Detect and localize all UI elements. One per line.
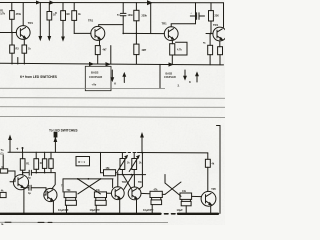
svg-text:re.: re.	[1, 223, 4, 225]
resistor R7	[95, 46, 100, 55]
wire diag	[123, 175, 132, 189]
wire X cross	[78, 179, 101, 194]
wire collector TR1b	[99, 25, 124, 27]
capacitor C7 electrolytic	[151, 200, 162, 205]
wire	[22, 152, 24, 158]
wire	[190, 15, 196, 17]
wire emitter TR5	[210, 206, 212, 213]
wire	[209, 55, 211, 65]
wire	[48, 3, 50, 12]
svg-text:TR3: TR3	[122, 181, 127, 184]
capacitor C6 electrolytic	[95, 200, 106, 205]
svg-text:K: K	[189, 80, 191, 84]
node	[77, 178, 79, 180]
wire collector TR1e	[22, 170, 24, 175]
wire bus	[117, 174, 145, 176]
down arrow	[111, 70, 113, 79]
wire emitter TR1d	[219, 41, 221, 47]
svg-text:220k: 220k	[142, 15, 148, 18]
wire	[121, 170, 123, 175]
transistor TR2	[44, 188, 57, 201]
down arrow	[123, 75, 125, 83]
wire	[122, 3, 124, 13]
svg-text:To LED SWITCHES: To LED SWITCHES	[49, 129, 78, 133]
wire right rail top	[223, 3, 225, 28]
svg-text:22K: 22K	[215, 15, 220, 18]
wire	[54, 138, 56, 153]
ground rail thick	[0, 213, 161, 215]
transistor TR1d	[213, 27, 227, 41]
wire	[100, 152, 102, 172]
ruled line 1	[0, 87, 165, 89]
wire	[210, 3, 212, 11]
wire emitter TR1	[23, 39, 25, 45]
transistor TR4	[128, 187, 141, 200]
svg-text:1/7k: 1/7k	[0, 13, 5, 16]
wire	[210, 21, 212, 34]
arrow on top rail	[148, 1, 152, 5]
wire continues	[138, 152, 208, 154]
resistor R1	[10, 11, 15, 20]
capacitor C8 electrolytic	[181, 201, 191, 205]
wire	[11, 33, 13, 46]
capacitor loop	[175, 42, 187, 55]
wire	[23, 172, 29, 174]
node	[22, 147, 24, 149]
wire X cross right	[165, 182, 181, 194]
resistor R3	[10, 45, 15, 53]
svg-text:K+ from LED SWITCHES: K+ from LED SWITCHES	[20, 75, 58, 79]
capacitor C1	[120, 12, 126, 14]
ruled line 2	[0, 97, 225, 100]
resistor RB6 variable	[120, 159, 125, 170]
svg-text:TR5: TR5	[211, 188, 216, 191]
svg-text:+Ve: +Ve	[92, 83, 97, 87]
resistor R4	[22, 45, 27, 53]
resistor R13	[218, 47, 223, 55]
wire	[207, 153, 209, 159]
transistor TR1e	[13, 175, 28, 190]
up arrow mid	[141, 137, 143, 153]
capacitor C2	[196, 13, 198, 20]
node	[100, 178, 102, 180]
capacitor C4	[28, 185, 30, 190]
wire	[164, 175, 166, 184]
down arrow	[196, 75, 198, 83]
wire	[171, 55, 173, 64]
black square terminal	[54, 132, 58, 138]
wire base TR1b	[74, 32, 91, 34]
svg-text:COUPLER: COUPLER	[89, 75, 102, 79]
wire base TR1d	[206, 33, 213, 35]
svg-text:TR1: TR1	[213, 23, 219, 27]
wire	[112, 179, 114, 188]
top supply rail	[0, 2, 224, 4]
wire	[101, 172, 104, 174]
svg-text:70k: 70k	[67, 189, 72, 192]
svg-text:TR1: TR1	[88, 19, 94, 23]
box BASS COUPLER	[85, 66, 111, 90]
resistor R11 22k	[209, 11, 214, 21]
wire	[135, 3, 137, 11]
wire	[73, 20, 75, 33]
wire X cross right	[165, 183, 181, 196]
svg-text:R: R	[55, 12, 57, 15]
wire	[73, 3, 75, 11]
up arrow	[9, 139, 11, 152]
wire diag	[124, 175, 133, 190]
wire	[97, 55, 99, 64]
svg-text:4k7: 4k7	[103, 49, 108, 52]
capacitor C3	[28, 170, 30, 175]
wire	[23, 53, 25, 64]
wire	[35, 169, 37, 172]
svg-text:K: K	[114, 82, 116, 86]
svg-text:TR1: TR1	[162, 22, 168, 26]
wire emitter TR1c	[171, 41, 173, 44]
ground rail dashes	[165, 213, 169, 215]
svg-text:To: To	[1, 148, 4, 152]
svg-text:10k: 10k	[182, 190, 187, 193]
ruled line 4	[0, 116, 225, 117]
svg-text:TR4: TR4	[138, 181, 143, 184]
wire	[35, 152, 37, 158]
wire	[116, 173, 118, 187]
wire	[219, 55, 221, 65]
dash-dot segment	[128, 152, 131, 154]
arrow on bottom rail	[90, 63, 94, 66]
wire emitter TR4	[136, 199, 138, 213]
resistor RB4	[49, 159, 53, 169]
resistor R9	[134, 44, 139, 55]
wire	[133, 153, 135, 159]
wire base input	[0, 32, 16, 34]
wire emitter TR2	[52, 201, 54, 213]
right rail bottom section	[217, 126, 221, 214]
wire	[195, 3, 197, 24]
wire collector TR1	[22, 3, 24, 26]
wire	[39, 3, 41, 39]
resistor RB3	[42, 159, 46, 169]
wire	[32, 172, 55, 174]
resistor R12	[208, 45, 213, 54]
transistor TR1c	[164, 27, 178, 41]
wire base TR1e	[10, 181, 14, 183]
wire	[122, 16, 124, 34]
node	[136, 33, 138, 35]
wire	[11, 3, 13, 11]
wire	[62, 3, 64, 11]
resistor R8 220k	[134, 10, 139, 20]
svg-text:BASS: BASS	[91, 71, 99, 75]
resistor RB2	[34, 159, 39, 170]
svg-text:15k: 15k	[106, 167, 111, 170]
node	[22, 172, 24, 174]
wire	[135, 33, 137, 44]
ground rail thick right	[178, 213, 218, 215]
bottom rail of top section	[0, 63, 224, 65]
transistor TR5	[201, 191, 216, 206]
arrow on bottom rail	[106, 63, 110, 66]
node	[131, 174, 133, 176]
node base TR1a	[11, 32, 13, 34]
wire	[11, 53, 13, 64]
node	[122, 33, 124, 35]
wire	[135, 21, 137, 34]
transistor TR1b	[91, 26, 105, 40]
bottom edge marks	[5, 221, 11, 223]
wire	[162, 193, 165, 195]
resistor RB5 horizontal	[104, 170, 116, 176]
main horizontal wire	[8, 151, 126, 153]
resistor RB1	[20, 159, 25, 171]
svg-text:10μF/PF: 10μF/PF	[90, 208, 101, 212]
transistor TR1	[16, 26, 30, 40]
resistor R6	[72, 11, 77, 21]
resistor RB7 variable	[132, 159, 137, 170]
wire mid bus	[63, 178, 113, 180]
wire X cross	[78, 179, 101, 194]
wire	[123, 32, 164, 34]
resistor R4b	[47, 12, 52, 21]
wire	[151, 205, 153, 214]
wire	[8, 171, 15, 182]
left edge resistor	[0, 169, 7, 173]
resistor RB12	[205, 159, 210, 167]
svg-text:10μF/PF: 10μF/PF	[58, 208, 69, 212]
svg-text:470k: 470k	[16, 13, 22, 16]
wire	[66, 205, 68, 213]
svg-text:R = 1: R = 1	[78, 160, 85, 164]
svg-text:100n: 100n	[128, 14, 134, 17]
wire	[209, 34, 211, 46]
wire	[150, 3, 152, 34]
transistor TR3	[111, 187, 124, 200]
node	[88, 178, 90, 180]
left edge box 2	[0, 192, 6, 197]
arrow on top rail	[37, 1, 40, 4]
ruled line 5 partial	[0, 221, 168, 223]
box R=1	[76, 157, 90, 166]
svg-text:1M: 1M	[66, 13, 69, 16]
svg-text:47k: 47k	[154, 188, 159, 191]
node	[44, 172, 46, 174]
wire	[159, 64, 161, 88]
node	[142, 152, 144, 154]
wire emitter TR1e	[23, 188, 25, 213]
wire	[95, 205, 97, 213]
svg-text:10μF: 10μF	[177, 208, 184, 212]
wire	[110, 46, 112, 64]
svg-text:4.7k: 4.7k	[177, 49, 182, 52]
wire base TR3	[107, 192, 112, 194]
wire	[11, 19, 13, 32]
resistor RB9	[94, 192, 106, 198]
down arrow	[184, 70, 186, 78]
wire	[44, 152, 46, 159]
wire collector TR5	[207, 167, 209, 191]
wire base TR5	[192, 195, 202, 197]
node	[210, 33, 212, 35]
wire collector TR4	[133, 175, 135, 187]
wire	[44, 168, 46, 172]
arrow on top rail	[50, 1, 53, 4]
wire	[62, 20, 64, 39]
wire emitter TR1b	[99, 40, 101, 45]
resistor RB11	[180, 193, 192, 199]
resistor RB8 70k	[64, 192, 76, 198]
node	[122, 174, 124, 176]
node	[35, 172, 37, 174]
resistor RB10	[150, 191, 162, 197]
ruled line 3	[0, 106, 225, 109]
svg-text:4M7: 4M7	[142, 49, 147, 52]
arrow on bottom rail	[169, 63, 173, 66]
wire	[133, 170, 135, 175]
wire	[50, 152, 52, 159]
wire	[139, 153, 143, 190]
svg-text:TR1: TR1	[28, 21, 34, 25]
wire	[199, 15, 204, 17]
wire	[121, 153, 123, 159]
wire emitter TR3	[119, 199, 121, 213]
resistor R5	[61, 11, 66, 21]
wire tick	[17, 58, 19, 65]
svg-text:COUPLER: COUPLER	[164, 76, 176, 79]
wire collector TR2	[52, 173, 55, 189]
wire	[62, 179, 64, 192]
wire	[24, 187, 28, 189]
capacitor C5 electrolytic	[65, 200, 76, 205]
wire	[2, 155, 4, 169]
wire	[135, 55, 137, 64]
wire collector TR1c	[171, 24, 195, 27]
wire	[141, 192, 150, 194]
wire	[32, 188, 46, 195]
resistor R10	[170, 44, 175, 55]
